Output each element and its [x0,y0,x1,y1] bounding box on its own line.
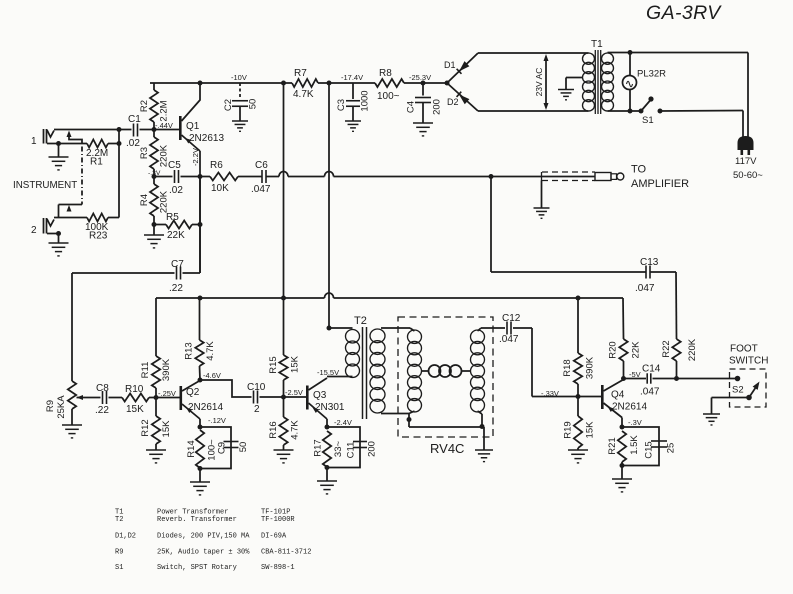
svg-text:D1,D2: D1,D2 [115,533,136,541]
svg-text:Q1: Q1 [186,121,200,132]
svg-text:R6: R6 [210,160,223,171]
svg-text:PL32R: PL32R [637,69,666,80]
svg-text:.22: .22 [95,405,109,416]
svg-text:C12: C12 [502,313,521,324]
svg-text:R18: R18 [562,359,573,376]
svg-text:R17: R17 [313,439,324,456]
svg-text:-2.5V: -2.5V [285,388,303,397]
svg-text:Q4: Q4 [611,390,625,401]
svg-text:25K, Audio taper ± 30%: 25K, Audio taper ± 30% [157,549,250,557]
svg-text:.047: .047 [635,283,655,294]
svg-text:-10V: -10V [231,73,247,82]
svg-text:-25.3V: -25.3V [409,73,431,82]
svg-text:FOOT: FOOT [730,344,758,355]
svg-text:D2: D2 [447,97,459,107]
svg-text:2: 2 [31,225,37,236]
svg-text:SW-898-1: SW-898-1 [261,564,295,572]
svg-text:50-60~: 50-60~ [733,170,763,181]
svg-text:R15: R15 [268,356,279,373]
svg-text:C8: C8 [96,383,109,394]
svg-text:TF-1000R: TF-1000R [261,516,295,524]
svg-text:Diodes, 200 PIV,150 MA: Diodes, 200 PIV,150 MA [157,533,250,541]
svg-text:R19: R19 [563,421,574,438]
svg-text:.02: .02 [169,185,183,196]
svg-text:R9: R9 [45,400,56,412]
svg-text:R1: R1 [90,157,103,168]
svg-text:117V: 117V [735,156,757,167]
svg-text:220K: 220K [687,338,698,361]
svg-text:AMPLIFIER: AMPLIFIER [631,178,689,190]
svg-text:-2.4V: -2.4V [334,418,352,427]
svg-text:R23: R23 [89,231,108,242]
svg-text:15K: 15K [290,355,301,373]
svg-text:R4: R4 [139,194,150,206]
svg-text:50: 50 [248,99,259,110]
svg-text:T1: T1 [591,39,603,50]
svg-text:R8: R8 [379,68,392,79]
svg-text:C9: C9 [217,442,228,454]
svg-text:.22: .22 [169,283,183,294]
svg-text:R7: R7 [294,68,307,79]
svg-text:2.2M: 2.2M [159,100,170,121]
svg-text:.047: .047 [499,334,519,345]
svg-text:15K: 15K [585,421,596,439]
svg-text:50: 50 [238,442,249,453]
svg-text:C13: C13 [640,257,659,268]
svg-text:D1: D1 [444,60,456,70]
svg-text:Reverb. Transformer: Reverb. Transformer [157,516,237,524]
svg-text:R13: R13 [184,342,195,359]
svg-text:200: 200 [367,441,378,457]
svg-text:33~: 33~ [333,440,344,457]
svg-text:R9: R9 [115,549,123,557]
svg-text:R14: R14 [186,440,197,457]
svg-text:C3: C3 [336,99,347,111]
svg-text:25KA: 25KA [56,395,67,419]
svg-text:S2: S2 [732,385,744,396]
svg-text:DI-69A: DI-69A [261,533,287,541]
svg-text:C5: C5 [168,160,181,171]
svg-text:Q2: Q2 [186,387,200,398]
svg-text:R21: R21 [607,437,618,454]
svg-text:C1: C1 [128,114,141,125]
svg-text:C6: C6 [255,160,268,171]
svg-text:23V AC: 23V AC [534,68,544,97]
svg-text:4.7K: 4.7K [205,341,216,361]
svg-text:-17.4V: -17.4V [341,73,363,82]
svg-text:4.7K: 4.7K [290,420,301,440]
svg-text:R11: R11 [140,362,151,379]
svg-text:390K: 390K [585,356,596,379]
svg-text:C2: C2 [223,99,234,111]
svg-text:1.5K: 1.5K [629,435,640,455]
svg-text:200: 200 [432,99,443,115]
svg-text:10K: 10K [211,183,229,194]
svg-text:TO: TO [631,164,647,176]
svg-text:2N2613: 2N2613 [189,133,224,144]
svg-text:RV4C: RV4C [430,441,464,456]
svg-text:.02: .02 [126,138,140,149]
svg-text:GA-3RV: GA-3RV [646,2,722,24]
svg-text:C11: C11 [346,442,357,459]
svg-text:2N301: 2N301 [315,402,345,413]
svg-text:390K: 390K [161,358,172,381]
svg-text:CBA-811-3712: CBA-811-3712 [261,549,311,557]
svg-text:R12: R12 [140,419,151,436]
svg-text:-.12V: -.12V [208,416,226,425]
svg-text:2: 2 [254,404,260,415]
svg-text:R22: R22 [661,340,672,357]
svg-text:T2: T2 [354,315,367,327]
svg-text:S1: S1 [115,564,123,572]
svg-text:SWITCH: SWITCH [729,356,768,367]
svg-text:C10: C10 [247,382,266,393]
svg-text:INSTRUMENT: INSTRUMENT [13,180,77,191]
svg-text:25: 25 [666,443,677,454]
svg-text:1000: 1000 [360,90,371,111]
svg-text:1: 1 [31,136,37,147]
svg-text:15K: 15K [126,404,144,415]
svg-text:2N2614: 2N2614 [188,402,223,413]
svg-text:R2: R2 [139,100,150,112]
svg-text:Q3: Q3 [313,390,327,401]
svg-text:.047: .047 [640,387,660,398]
svg-text:4.7K: 4.7K [293,89,314,100]
svg-text:R3: R3 [139,147,150,159]
svg-text:-.44V: -.44V [155,121,173,130]
svg-text:C14: C14 [642,364,661,375]
svg-text:R10: R10 [125,384,144,395]
svg-text:C4: C4 [406,101,417,113]
svg-text:R5: R5 [166,212,179,223]
svg-text:15K: 15K [161,420,172,438]
svg-text:S1: S1 [642,115,654,126]
svg-text:2N2614: 2N2614 [612,402,647,413]
svg-text:C7: C7 [171,259,184,270]
svg-text:22K: 22K [631,341,642,359]
svg-text:C15: C15 [644,441,655,458]
svg-text:R20: R20 [608,341,619,358]
svg-text:-4.6V: -4.6V [203,371,221,380]
svg-text:22K: 22K [167,230,185,241]
svg-text:-2.2V: -2.2V [191,148,200,166]
svg-text:Switch, SPST Rotary: Switch, SPST Rotary [157,564,237,572]
svg-text:T2: T2 [115,516,123,524]
svg-text:-.3V: -.3V [628,418,642,427]
svg-text:R16: R16 [268,421,279,438]
svg-text:100~: 100~ [377,91,400,102]
svg-text:.047: .047 [251,184,271,195]
svg-text:-.33V: -.33V [541,389,559,398]
